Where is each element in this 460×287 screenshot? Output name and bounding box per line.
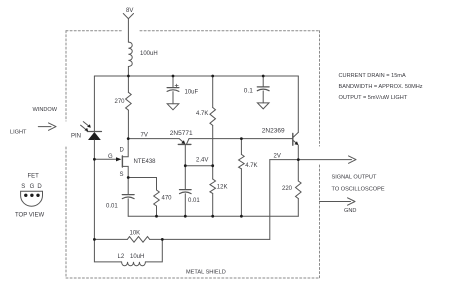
wire 4.7K no1 column top [212, 76, 214, 108]
FET package pin dot S [24, 194, 27, 197]
wire 2.4V node [185, 165, 213, 167]
svg-text:4.7K: 4.7K [196, 111, 208, 117]
FET source lead [122, 166, 128, 177]
metal shield dashed box right edge [319, 31, 321, 278]
resistor R7 10K [127, 237, 149, 243]
light arrow 1 onto diode [83, 122, 90, 127]
node: drain junction [127, 137, 130, 140]
svg-text:GND: GND [344, 208, 356, 214]
svg-text:2N2369: 2N2369 [262, 127, 285, 134]
resistor R2 470 [154, 190, 160, 206]
svg-text:CURRENT DRAIN = 15mA: CURRENT DRAIN = 15mA [339, 73, 406, 79]
node: rail-4.7K junction [211, 75, 214, 78]
svg-text:METAL SHIELD: METAL SHIELD [186, 270, 226, 276]
capacitor C3 10uF plates [167, 87, 179, 89]
wire 470 to bottom rail [156, 206, 158, 216]
node: 2.4V right junction [211, 164, 214, 167]
svg-text:10uH: 10uH [130, 254, 144, 260]
top rail node B+ [94, 75, 298, 77]
svg-text:220: 220 [282, 186, 293, 192]
2N5771 base lead down [184, 145, 186, 166]
wire C2 to bottom rail [184, 194, 186, 216]
svg-text:TOP VIEW: TOP VIEW [15, 212, 44, 218]
GND arrowhead [348, 198, 356, 205]
resistor R4 12K [210, 179, 216, 193]
wire 270 column top [127, 76, 129, 92]
wire C1 to bottom rail [127, 199, 129, 216]
node: source junction [127, 176, 130, 179]
svg-text:2N5771: 2N5771 [170, 130, 193, 137]
FET package top view outline [21, 191, 43, 206]
resistor R3 4.7K [210, 108, 216, 126]
svg-text:BANDWIDTH = APPROX. 50MHz: BANDWIDTH = APPROX. 50MHz [339, 84, 423, 90]
transistor Q3 2N2369 base bar [292, 133, 294, 145]
node: rail-inductor junction [127, 75, 130, 78]
metal shield dashed box left edge (gap = window) [65, 31, 67, 278]
node: rail-4.7K2 junction [240, 215, 243, 218]
FET Q1 channel bar [121, 156, 123, 167]
wire 10uF from top rail [172, 76, 174, 87]
svg-text:LIGHT: LIGHT [10, 130, 27, 136]
2N2369 emitter diagonal [293, 140, 297, 144]
svg-text:7V: 7V [141, 132, 148, 138]
photodiode D1 PIN cathode bar [87, 131, 101, 133]
svg-text:G: G [108, 154, 113, 160]
mid rail right part [189, 138, 293, 140]
2N5771 collector diagonal [187, 139, 189, 144]
inductor L1 100uH [128, 42, 132, 66]
svg-text:OUTPUT = 5mV/uW LIGHT: OUTPUT = 5mV/uW LIGHT [339, 95, 408, 101]
wire photodiode to gate tap [93, 140, 95, 159]
svg-text:2V: 2V [274, 153, 281, 159]
FET gate arrowhead [116, 157, 121, 161]
svg-text:4.7K: 4.7K [245, 163, 257, 169]
node: rail-10uF junction [172, 75, 175, 78]
svg-text:2.4V: 2.4V [196, 157, 208, 163]
GND wire [320, 201, 351, 203]
svg-text:L2: L2 [118, 254, 125, 260]
10uF plus mark [175, 84, 178, 87]
capacitor C1 0.01 plates [122, 194, 134, 196]
feedback wire horizontal [162, 238, 269, 240]
node: emitter signal junction [297, 158, 300, 161]
L2 loop left drop [94, 239, 121, 262]
wire 10K left [94, 238, 127, 240]
svg-text:S: S [21, 184, 25, 190]
svg-text:TO OSCILLOSCOPE: TO OSCILLOSCOPE [332, 187, 385, 193]
capacitor C4 0.1 plates [257, 86, 269, 88]
node: base 4.7K junction [240, 137, 243, 140]
svg-text:WINDOW: WINDOW [33, 107, 58, 113]
2N2369 collector diagonal [293, 132, 298, 137]
capacitor C2 0.01 plates [180, 189, 192, 191]
ground triangle for C3 [167, 104, 179, 110]
node: feedback left junction [93, 238, 96, 241]
signal output arrowhead [349, 156, 357, 163]
svg-text:G: G [30, 184, 35, 190]
wire 220 to bottom rail [297, 199, 299, 217]
resistor R1 270 [126, 92, 132, 110]
node: gate tap junction [93, 158, 96, 161]
2N5771 emitter arrowhead [181, 140, 185, 144]
wire 0.1 from top rail [262, 76, 264, 87]
signal output wire [270, 159, 352, 161]
resistor R5 4.7K [239, 154, 245, 168]
svg-text:S: S [120, 172, 124, 178]
bottom rail [128, 215, 298, 217]
svg-text:FET: FET [28, 174, 40, 180]
light arrow 2 onto diode [81, 125, 88, 130]
wire 4.7K to 2.4V node [212, 125, 214, 179]
wire 0.1 to ground triangle [262, 91, 264, 103]
svg-text:470: 470 [162, 196, 173, 202]
node: rail-0.1 junction [262, 75, 265, 78]
svg-text:D: D [37, 184, 42, 190]
wire 10K right [150, 238, 163, 240]
metal shield dashed box top edge [66, 31, 320, 278]
wire 4.7K no2 to bottom rail [240, 169, 242, 216]
wire inductor to top rail [127, 67, 129, 77]
wire gate tap down to feedback node [93, 159, 95, 239]
svg-text:100uH: 100uH [140, 51, 158, 57]
wire source to capacitor C1 [127, 178, 129, 195]
node: rail-12K junction [211, 215, 214, 218]
svg-text:12K: 12K [217, 184, 228, 190]
svg-text:0.1: 0.1 [244, 88, 253, 95]
FET package pin dot G [30, 194, 33, 197]
wire 4.7K no2 column top [240, 139, 242, 155]
2N2369 emitter arrowhead [294, 141, 298, 145]
node: rail-C2 junction [184, 215, 187, 218]
node: rail-470 junction [155, 215, 158, 218]
main mid rail (drain / 2N5771 emitter, 2N2369 base) left part [128, 138, 179, 140]
feedback wire down from signal node [269, 160, 271, 240]
ground triangle for C4 [257, 103, 269, 109]
gate wire G [94, 158, 117, 160]
svg-text:PIN: PIN [71, 134, 81, 140]
8V supply fork terminal [123, 14, 133, 19]
svg-text:0.01: 0.01 [106, 204, 118, 210]
inductor L2 10uH [122, 262, 146, 266]
wire 12K to bottom rail [212, 193, 214, 216]
wire source node to 470 [128, 178, 156, 191]
left edge wire from rail to photodiode [93, 76, 95, 131]
wire base node to capacitor C2 [184, 166, 186, 190]
FET drain lead [122, 139, 128, 157]
resistor R6 220 [296, 181, 302, 199]
svg-text:8V: 8V [126, 8, 133, 14]
FET package pin dot D [36, 194, 39, 197]
svg-text:10uF: 10uF [185, 90, 199, 96]
2N2369 collector wire up to rail [297, 76, 299, 132]
metal shield dashed box bottom edge [66, 277, 320, 279]
wire 270 to drain node [127, 110, 129, 139]
LIGHT arrow [38, 126, 51, 128]
svg-text:0.01: 0.01 [188, 198, 200, 204]
node: 2.4V left junction [184, 164, 187, 167]
svg-text:270: 270 [115, 99, 126, 105]
photodiode D1 PIN triangle [88, 132, 101, 140]
svg-text:SIGNAL OUTPUT: SIGNAL OUTPUT [332, 174, 377, 180]
2N5771 base bar [178, 143, 191, 145]
svg-text:10K: 10K [130, 231, 141, 237]
node: feedback L2 junction [161, 238, 164, 241]
L2 loop right rise [145, 239, 162, 262]
emitter wire down [297, 145, 299, 181]
wire 8V to inductor [127, 19, 129, 42]
svg-text:D: D [120, 147, 125, 153]
svg-text:NTE438: NTE438 [134, 159, 157, 165]
wire 10uF to ground triangle [172, 92, 174, 104]
transistor Q2 2N5771 emitter diagonal [179, 139, 184, 144]
